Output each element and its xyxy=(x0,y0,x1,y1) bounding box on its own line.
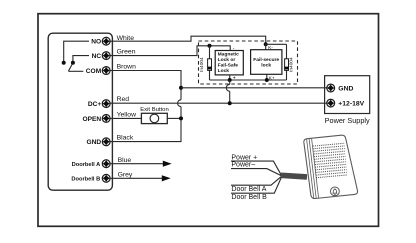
svg-text:lock: lock xyxy=(261,63,271,69)
terminal GND xyxy=(102,138,110,146)
svg-text:COM: COM xyxy=(86,68,102,75)
relay COM wire xyxy=(68,70,83,72)
terminal PSU GND xyxy=(327,84,335,92)
svg-text:+12-18V: +12-18V xyxy=(338,101,364,108)
svg-text:Door Bell B: Door Bell B xyxy=(231,194,267,201)
svg-text:Lock: Lock xyxy=(218,68,230,74)
wire magnetic lock plus drop xyxy=(229,75,231,80)
node exit button junction xyxy=(179,116,183,120)
border frame xyxy=(38,14,379,227)
wire Power - xyxy=(231,169,281,176)
terminal COM xyxy=(102,67,110,75)
wire fail-secure K- drop xyxy=(265,44,267,49)
svg-text:Exit Button: Exit Button xyxy=(140,107,169,113)
wire Door Bell A xyxy=(231,176,281,185)
relay NC contact dot xyxy=(71,61,75,65)
svg-text:NC: NC xyxy=(92,53,102,60)
diode D2 band xyxy=(285,67,289,70)
arrowhead blue xyxy=(163,161,172,167)
wire exit button to GND net xyxy=(167,117,181,119)
diode D2 body xyxy=(285,59,289,71)
wire red DC+ to power supply xyxy=(110,102,327,104)
relay NO contact wire xyxy=(64,41,89,61)
diode D2 wire xyxy=(286,44,288,80)
terminal DC+ xyxy=(102,100,110,108)
svg-text:White: White xyxy=(117,35,135,42)
terminal DoorbellB xyxy=(102,174,110,182)
doorbell button circle xyxy=(331,187,340,196)
svg-text:Yellow: Yellow xyxy=(117,111,136,118)
terminal PSU +12-18V xyxy=(327,99,335,107)
wire yellow OPEN to exit button xyxy=(110,117,141,119)
wire plus rail down to red xyxy=(229,80,231,84)
svg-text:Power–: Power– xyxy=(231,162,255,169)
magnetic lock box xyxy=(215,51,243,75)
svg-text:Red: Red xyxy=(117,96,130,103)
access controller back panel xyxy=(48,33,112,190)
svg-text:GND: GND xyxy=(338,85,353,92)
node plus red junction xyxy=(228,101,232,105)
doorbell body xyxy=(304,135,358,198)
wire blue DoorbellA xyxy=(110,163,164,165)
svg-text:Fail-Safe: Fail-Safe xyxy=(218,63,239,69)
svg-text:Green: Green xyxy=(117,48,136,55)
svg-text:Brown: Brown xyxy=(117,63,136,70)
node green rail diode junction xyxy=(208,44,212,48)
terminal OPEN xyxy=(102,115,110,123)
node white rail junction xyxy=(264,42,268,46)
wire white NO to fail-secure lock xyxy=(110,36,266,44)
svg-text:GND: GND xyxy=(87,139,102,146)
wire GND net vertical to black xyxy=(110,107,181,142)
svg-text:Black: Black xyxy=(117,134,134,141)
node fail-secure plus junction xyxy=(265,78,269,82)
svg-text:OPEN: OPEN xyxy=(83,116,102,123)
relay NO contact dot xyxy=(62,61,66,65)
hop of plus wire over GND rail xyxy=(226,84,229,91)
svg-text:In4004: In4004 xyxy=(288,57,294,72)
diode D1 wire xyxy=(209,46,211,80)
wire plus to red continued xyxy=(229,91,231,103)
svg-text:Blue: Blue xyxy=(118,157,132,164)
svg-text:Magnetic: Magnetic xyxy=(218,51,239,57)
wire grey DoorbellB xyxy=(110,177,163,179)
arrowhead grey xyxy=(162,175,171,181)
svg-text:Power Supply: Power Supply xyxy=(325,116,370,125)
terminal NO xyxy=(102,37,110,45)
node COM-GND junction xyxy=(179,86,183,90)
wire GND rail to power supply xyxy=(181,87,327,89)
svg-text:NO: NO xyxy=(91,39,101,46)
terminal NC xyxy=(102,52,110,60)
hop of GND net over red wire xyxy=(178,100,181,107)
diode D1 band xyxy=(208,67,212,70)
exit button box xyxy=(141,113,167,123)
wire green NC to magnetic lock xyxy=(110,46,230,56)
wire Power + xyxy=(231,161,281,175)
relay NC contact wire xyxy=(73,56,89,61)
svg-text:Door Bell A: Door Bell A xyxy=(231,186,266,193)
svg-text:Lock or: Lock or xyxy=(218,57,236,63)
svg-text:DC+: DC+ xyxy=(88,101,102,108)
terminal DoorbellA xyxy=(102,160,110,168)
wire Door Bell B xyxy=(231,177,282,193)
wire brown COM down to GND net xyxy=(110,71,181,100)
svg-text:Doorbell B: Doorbell B xyxy=(71,177,100,183)
svg-text:K-: K- xyxy=(268,45,273,50)
diode D1 body xyxy=(208,59,212,71)
svg-text:Grey: Grey xyxy=(118,171,133,178)
svg-text:Doorbell A: Doorbell A xyxy=(72,162,101,168)
power supply box xyxy=(325,76,370,114)
relay switch arm xyxy=(68,64,72,72)
svg-text:Fail-secure: Fail-secure xyxy=(253,57,279,63)
wire white rail to diode D2 xyxy=(266,43,287,45)
doorbell side lines xyxy=(307,139,319,199)
svg-text:+: + xyxy=(233,76,236,82)
fail-secure lock box xyxy=(251,50,282,75)
svg-text:In4004: In4004 xyxy=(199,57,205,72)
wire lock plus rail xyxy=(210,79,287,81)
doorbell bell icon xyxy=(333,188,338,195)
node magnetic plus junction xyxy=(228,78,232,82)
doorbell cable xyxy=(281,175,307,177)
exit button circle xyxy=(150,114,159,123)
svg-text:Power +: Power + xyxy=(231,154,257,161)
lock assembly dashed box xyxy=(199,41,298,84)
wire fail-secure K+ drop xyxy=(266,74,268,80)
doorbell speaker grille xyxy=(313,143,347,177)
